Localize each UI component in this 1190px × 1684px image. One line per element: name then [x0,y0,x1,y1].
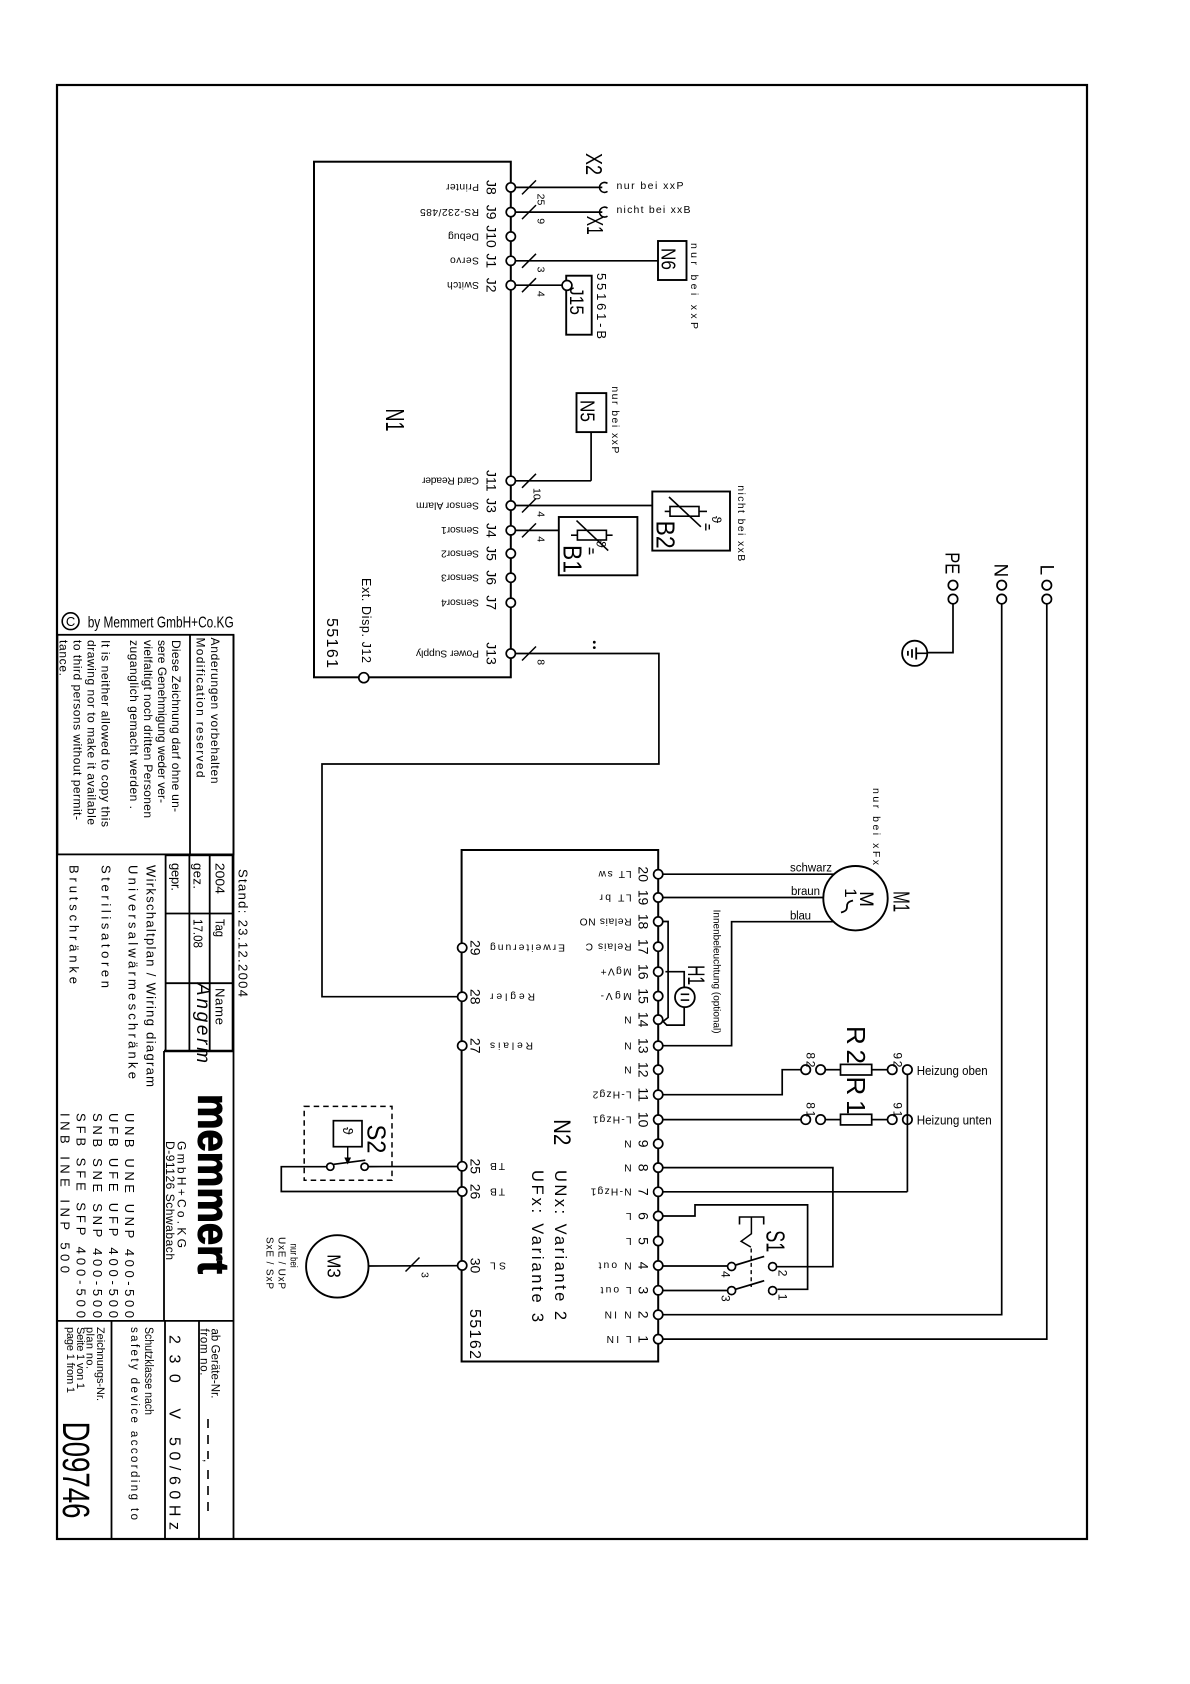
pin 26 (TB) [458,1184,505,1200]
power board N2 [462,850,659,1362]
svg-text:Debug: Debug [448,230,479,241]
svg-text:Servo: Servo [450,255,479,266]
svg-text:J15: J15 [565,287,586,315]
connector X2 [581,153,608,192]
pin 28 (Regler) [458,989,535,1005]
label Heizung unten [917,1114,992,1128]
resistor R2 (Heizung oben) [825,1026,887,1075]
svg-text:J11: J11 [484,470,500,492]
svg-text:N: N [624,1138,631,1149]
pin 17 (Relais C) [585,939,663,955]
svg-text:Relais C: Relais C [585,941,632,952]
pin 16 (MgV+) [601,964,663,980]
wire pin20 schwarz to M1 [663,863,835,875]
svg-text:4: 4 [535,291,547,297]
pin 4 (N out) [598,1259,662,1270]
svg-text:3: 3 [419,1272,431,1278]
svg-text:55161: 55161 [323,618,340,668]
svg-text:J8: J8 [484,180,500,195]
svg-text:11: 11 [636,1087,652,1102]
note nur bei xxP (X2) [617,180,684,192]
svg-text:J6: J6 [484,570,500,585]
svg-text:1: 1 [636,1335,652,1343]
terminal 81 [801,1102,825,1124]
svg-text:schwarz: schwarz [790,863,832,875]
motor M1 [823,866,914,930]
svg-text:It is neither allowed to copy: It is neither allowed to copy this [99,640,113,827]
svg-text:N6: N6 [657,248,679,270]
svg-text:L: L [626,1235,632,1246]
svg-text:1: 1 [776,1294,790,1301]
lamp H1 (Innenbeleuchtung) [675,965,709,1007]
svg-text:16: 16 [636,964,652,980]
sensor B1 (temperature sensor) [558,517,638,575]
wire S2 to pin26 [281,1167,457,1192]
svg-text:7: 7 [636,1188,652,1196]
svg-text:3: 3 [535,267,547,273]
svg-text:N: N [624,1013,631,1024]
wire H1 to pin14 [663,1007,684,1025]
wire N5 to J11 [515,432,591,500]
svg-text:Sensor3: Sensor3 [441,572,479,583]
note UNx Variante 2 [551,1170,569,1320]
wire J8 to connector X2 [515,180,602,205]
svg-text:N: N [990,564,1011,578]
svg-text:55162: 55162 [466,1309,483,1359]
svg-text:J7: J7 [484,595,500,610]
svg-text:J9: J9 [484,205,500,220]
pin 12 (N) [624,1062,663,1078]
wire J1 to N6 [515,254,658,273]
svg-text:Sensor4: Sensor4 [441,597,479,608]
svg-text:zuganglich gemacht werden .: zuganglich gemacht werden . [127,640,141,809]
svg-text:15: 15 [636,988,652,1004]
svg-text:3: 3 [719,1295,733,1302]
svg-text:sere Genehmigung weder ver-: sere Genehmigung weder ver- [155,640,169,803]
svg-text:J4: J4 [484,523,500,538]
svg-text:Heizung oben: Heizung oben [917,1064,988,1078]
svg-text:Sensor1: Sensor1 [441,524,479,535]
svg-text:Name: Name [213,988,228,1025]
svg-text:nicht bei xxB: nicht bei xxB [735,485,747,561]
svg-text:2: 2 [636,1311,652,1319]
wire pin13 blau to M1 [663,911,834,1046]
svg-text:TB: TB [490,1185,505,1196]
svg-text:6: 6 [636,1212,652,1220]
svg-text:B1: B1 [558,545,588,573]
pin J11 (Card Reader) [421,470,515,492]
pin 19 (LT br) [599,890,663,906]
svg-text:82: 82 [804,1052,818,1067]
svg-text:,: , [201,1459,215,1462]
svg-text:nur bei: nur bei [287,1244,298,1268]
svg-text:Diese Zeichnung darf ohne un-: Diese Zeichnung darf ohne un- [169,640,183,812]
wire pin4 to S1 contact 4 [663,1265,727,1267]
svg-text:81: 81 [804,1102,818,1117]
svg-text:LT br: LT br [599,891,632,902]
svg-text:Innenbeleuchtung (optional): Innenbeleuchtung (optional) [711,910,723,1034]
svg-text:UNx: Variante 2: UNx: Variante 2 [551,1170,569,1320]
pin 1 (L IN) [607,1333,663,1344]
svg-text:nur bei xxP: nur bei xxP [609,386,621,453]
title block [54,613,250,1539]
terminal PE [941,552,963,604]
label 55161-B [594,273,609,339]
pin J4 (Sensor1) [441,523,516,538]
svg-text:D-91126 Schwabach: D-91126 Schwabach [163,1141,177,1260]
svg-text:Erweiterung: Erweiterung [490,942,565,953]
wire PE to earth [927,604,953,653]
svg-text:5: 5 [636,1237,652,1245]
svg-text:gepr.: gepr. [169,863,184,891]
pin J1 (Servo) [450,253,516,268]
svg-text:X2: X2 [581,153,607,175]
svg-text:M3: M3 [324,1254,344,1278]
svg-text:SxE / SxP: SxE / SxP [263,1237,274,1289]
svg-text:8: 8 [535,659,547,665]
svg-text:Schutzklasse nach: Schutzklasse nach [142,1327,154,1415]
svg-text:ϑ: ϑ [340,1127,356,1135]
svg-text:ϑ: ϑ [709,516,724,524]
svg-text:4: 4 [719,1271,733,1278]
svg-text:J5: J5 [484,546,500,561]
svg-text:Tag: Tag [213,919,228,937]
pin 25 (TB) [458,1159,505,1175]
svg-text:blau: blau [790,911,811,923]
pin 13 (N) [624,1038,663,1054]
note nur bei UxE/UxP SxE/SxP [263,1237,298,1289]
svg-text:C: C [66,614,75,629]
wire pin11 to terminal 82 [663,1070,801,1095]
pin J13 (Power Supply) [415,642,515,665]
svg-text:Switch: Switch [447,279,479,290]
controller board N1 [314,162,511,678]
svg-text:drawing nor to make it availab: drawing nor to make it available [85,640,99,825]
pin 29 (Erweiterung) [458,940,565,956]
pin J2 (Switch) [447,278,516,293]
pin J7 (Sensor4) [441,595,516,610]
wire J9 to connector X1 [515,205,602,224]
connector J15 [562,276,592,335]
svg-text:PE: PE [941,552,963,574]
switch S1 (over-temperature cutout) [719,1217,791,1302]
wire J4 to B1 [515,523,558,542]
svg-text:2004: 2004 [213,863,228,894]
terminal L [1036,565,1057,604]
svg-text:gez.: gez. [191,863,206,889]
svg-text:3: 3 [636,1286,652,1294]
svg-text:N5: N5 [576,400,598,422]
svg-text:Ext. Disp. J12: Ext. Disp. J12 [359,578,373,663]
svg-text:J13: J13 [484,642,500,665]
svg-text:9: 9 [535,218,547,224]
svg-text:4: 4 [535,511,547,517]
svg-text:92: 92 [891,1052,905,1067]
svg-text:J2: J2 [484,278,500,293]
pin 10 (L-Hzg1) [592,1112,662,1128]
svg-text:Sensor2: Sensor2 [441,547,479,558]
svg-text:13: 13 [636,1038,652,1054]
svg-text:4: 4 [636,1262,652,1270]
pin J10 (Debug) [448,225,516,248]
svg-text:Printer: Printer [445,181,479,192]
wire S2 to pin25 [368,1166,457,1168]
svg-text:braun: braun [791,886,820,898]
svg-text:19: 19 [636,890,652,906]
card reader module N5 [576,393,607,432]
svg-text:14: 14 [636,1012,652,1028]
svg-text:N-Hzg1: N-Hzg1 [590,1186,631,1197]
resistor R1 (Heizung unten) [825,1077,887,1125]
svg-text:12: 12 [636,1062,652,1078]
svg-text:Relais NO: Relais NO [580,915,632,926]
terminal 91 [888,1102,913,1124]
terminal 92 [888,1052,913,1074]
svg-text:Card Reader: Card Reader [421,475,479,486]
svg-text:L: L [1036,565,1057,576]
svg-text:Wirkschaltplan / Wiring diagra: Wirkschaltplan / Wiring diagram [144,865,159,1087]
note nur bei xxP (N6) [688,243,700,329]
svg-text:17: 17 [636,939,652,955]
svg-text:H1: H1 [682,965,709,985]
svg-text:to third persons without permi: to third persons without permit- [71,640,85,820]
svg-text:nur bei xxP: nur bei xxP [617,180,684,192]
svg-text:RS-232/485: RS-232/485 [420,206,479,217]
wire L to pin1 [663,604,1047,1339]
svg-text:2: 2 [776,1270,790,1277]
pin 3 (L out) [600,1284,662,1295]
svg-text:nur bei xxP: nur bei xxP [688,243,700,329]
svg-text:X1: X1 [582,216,608,235]
pin 30 (SL) [458,1258,506,1274]
svg-text:50/60Hz: 50/60Hz [166,1437,183,1530]
svg-text:L IN: L IN [607,1333,632,1344]
svg-text:29: 29 [468,940,484,956]
svg-text:B2: B2 [651,521,681,549]
svg-text:tance.: tance. [57,640,71,676]
pin J3 (Sensor Alarm) [416,498,515,513]
svg-text:N: N [624,1040,631,1051]
wire J2 to J15 [515,278,562,297]
wire pin16 to H1 [665,972,684,988]
wire heater return 92/91 to pin7 [663,1074,908,1191]
pin 27 (Relais) [458,1038,533,1054]
switch S2 (TB thermostat) [304,1106,392,1180]
note Innenbeleuchtung (optional) [711,910,723,1034]
sensor B2 (alarm temperature sensor) [651,492,731,551]
svg-text:page 1 from 1: page 1 from 1 [64,1327,76,1393]
svg-text:S2: S2 [362,1125,392,1154]
note UFx Variante 3 [528,1170,546,1322]
svg-text:ϑ: ϑ [594,541,609,549]
terminal 82 [801,1052,825,1074]
svg-text:Heizung unten: Heizung unten [917,1114,992,1128]
svg-text:N: N [624,1064,631,1075]
wire J3 to B2 [515,499,652,518]
pin J6 (Sensor3) [441,570,516,585]
svg-text:N1: N1 [380,409,410,432]
note nur bei xFx (M1) [870,788,882,866]
svg-text:20: 20 [636,866,652,882]
svg-text:Power Supply: Power Supply [415,647,479,658]
pin 11 (L-Hzg2) [592,1087,662,1102]
pin 18 (Relais NO) [580,914,663,930]
note nur bei xxP (N5) [609,386,621,453]
svg-text:Anderungen vorbehalten: Anderungen vorbehalten [208,638,222,784]
pin J9 (RS-232/485) [420,205,516,220]
wire pin6 to S1 contact 1 [663,1205,808,1289]
svg-text:memmert: memmert [189,1094,238,1274]
pin 9 (N) [624,1138,663,1149]
svg-text:17.08: 17.08 [191,919,206,948]
svg-text:J10: J10 [484,225,500,248]
svg-text:S1: S1 [761,1230,791,1252]
wire pin3 to S1 contact 3 [663,1290,727,1292]
svg-text:nicht bei xxB: nicht bei xxB [617,204,691,216]
svg-text:Stand: 23.12.2004: Stand: 23.12.2004 [236,869,251,997]
svg-text:J3: J3 [484,498,500,513]
svg-text:25: 25 [535,194,547,206]
label Heizung oben [917,1064,988,1078]
display module N6 [657,241,687,280]
terminal N [990,564,1011,604]
connector X1 [582,207,608,235]
power bus J13 to pin 28 (Regler) [322,647,659,997]
pin 6 (L) [626,1210,663,1221]
wire N to pin2 [663,604,1002,1315]
svg-text:9: 9 [636,1140,652,1148]
pin J8 (Printer) [445,180,515,195]
pin J12 (Ext. Disp.) [359,578,373,683]
svg-text:30: 30 [468,1258,484,1274]
svg-text:MgV+: MgV+ [601,966,632,977]
pin 8 (N) [624,1161,663,1172]
svg-text:N: N [624,1161,631,1172]
wire pin8 to S1 contact 2 [663,1168,833,1267]
svg-text:8: 8 [636,1164,652,1172]
svg-text:TB: TB [490,1160,505,1171]
earth symbol [902,641,927,666]
svg-text:91: 91 [891,1102,905,1117]
svg-text:26: 26 [468,1184,484,1200]
svg-text:J1: J1 [484,253,500,268]
svg-text:UxE / UxP: UxE / UxP [276,1237,287,1289]
pin J5 (Sensor2) [441,546,516,561]
svg-text:by Memmert GmbH+Co.KG: by Memmert GmbH+Co.KG [88,614,234,631]
svg-text:10: 10 [531,488,543,500]
svg-text:28: 28 [468,989,484,1005]
note nicht bei xxB (X1) [617,204,691,216]
pin 20 (LT sw) [598,866,663,882]
note nicht bei xxB (B2) [735,485,747,561]
pin 7 (N-Hzg1) [590,1186,662,1197]
motor M3 [306,1235,368,1297]
node colon mark near Power Supply [593,641,596,649]
svg-text:L: L [626,1210,632,1221]
svg-text:25: 25 [468,1159,484,1175]
svg-text:Universalwärmeschränke: Universalwärmeschränke [126,865,141,1079]
pin 5 (L) [626,1235,663,1246]
svg-text:18: 18 [636,914,652,930]
svg-text:27: 27 [468,1038,484,1054]
pin 14 (N) [624,1012,663,1028]
svg-text:1: 1 [841,888,860,897]
wire M3 to pin30 [368,1258,457,1279]
wire pin18 to pin14 [663,922,668,1022]
svg-text:M1: M1 [889,891,915,912]
svg-text:vielfaltigt noch dritten Perso: vielfaltigt noch dritten Personen [141,640,155,818]
svg-text:10: 10 [636,1112,652,1128]
svg-text:N2: N2 [548,1119,575,1145]
svg-text:INB INE INP 500: INB INE INP 500 [58,1113,73,1273]
pin 15 (MgV-) [601,988,663,1004]
svg-text:4: 4 [535,536,547,542]
pin 2 (N IN) [605,1309,663,1320]
svg-text:nur bei xFx: nur bei xFx [870,788,882,866]
svg-text:from no.: from no. [198,1329,210,1376]
wire pin19 braun to M1 [663,886,824,898]
svg-text:Modification reserved: Modification reserved [194,638,208,778]
svg-text:Sensor Alarm: Sensor Alarm [416,499,479,510]
svg-text:D09746: D09746 [54,1422,96,1519]
wire pin10 to terminal 81 [663,1119,801,1121]
